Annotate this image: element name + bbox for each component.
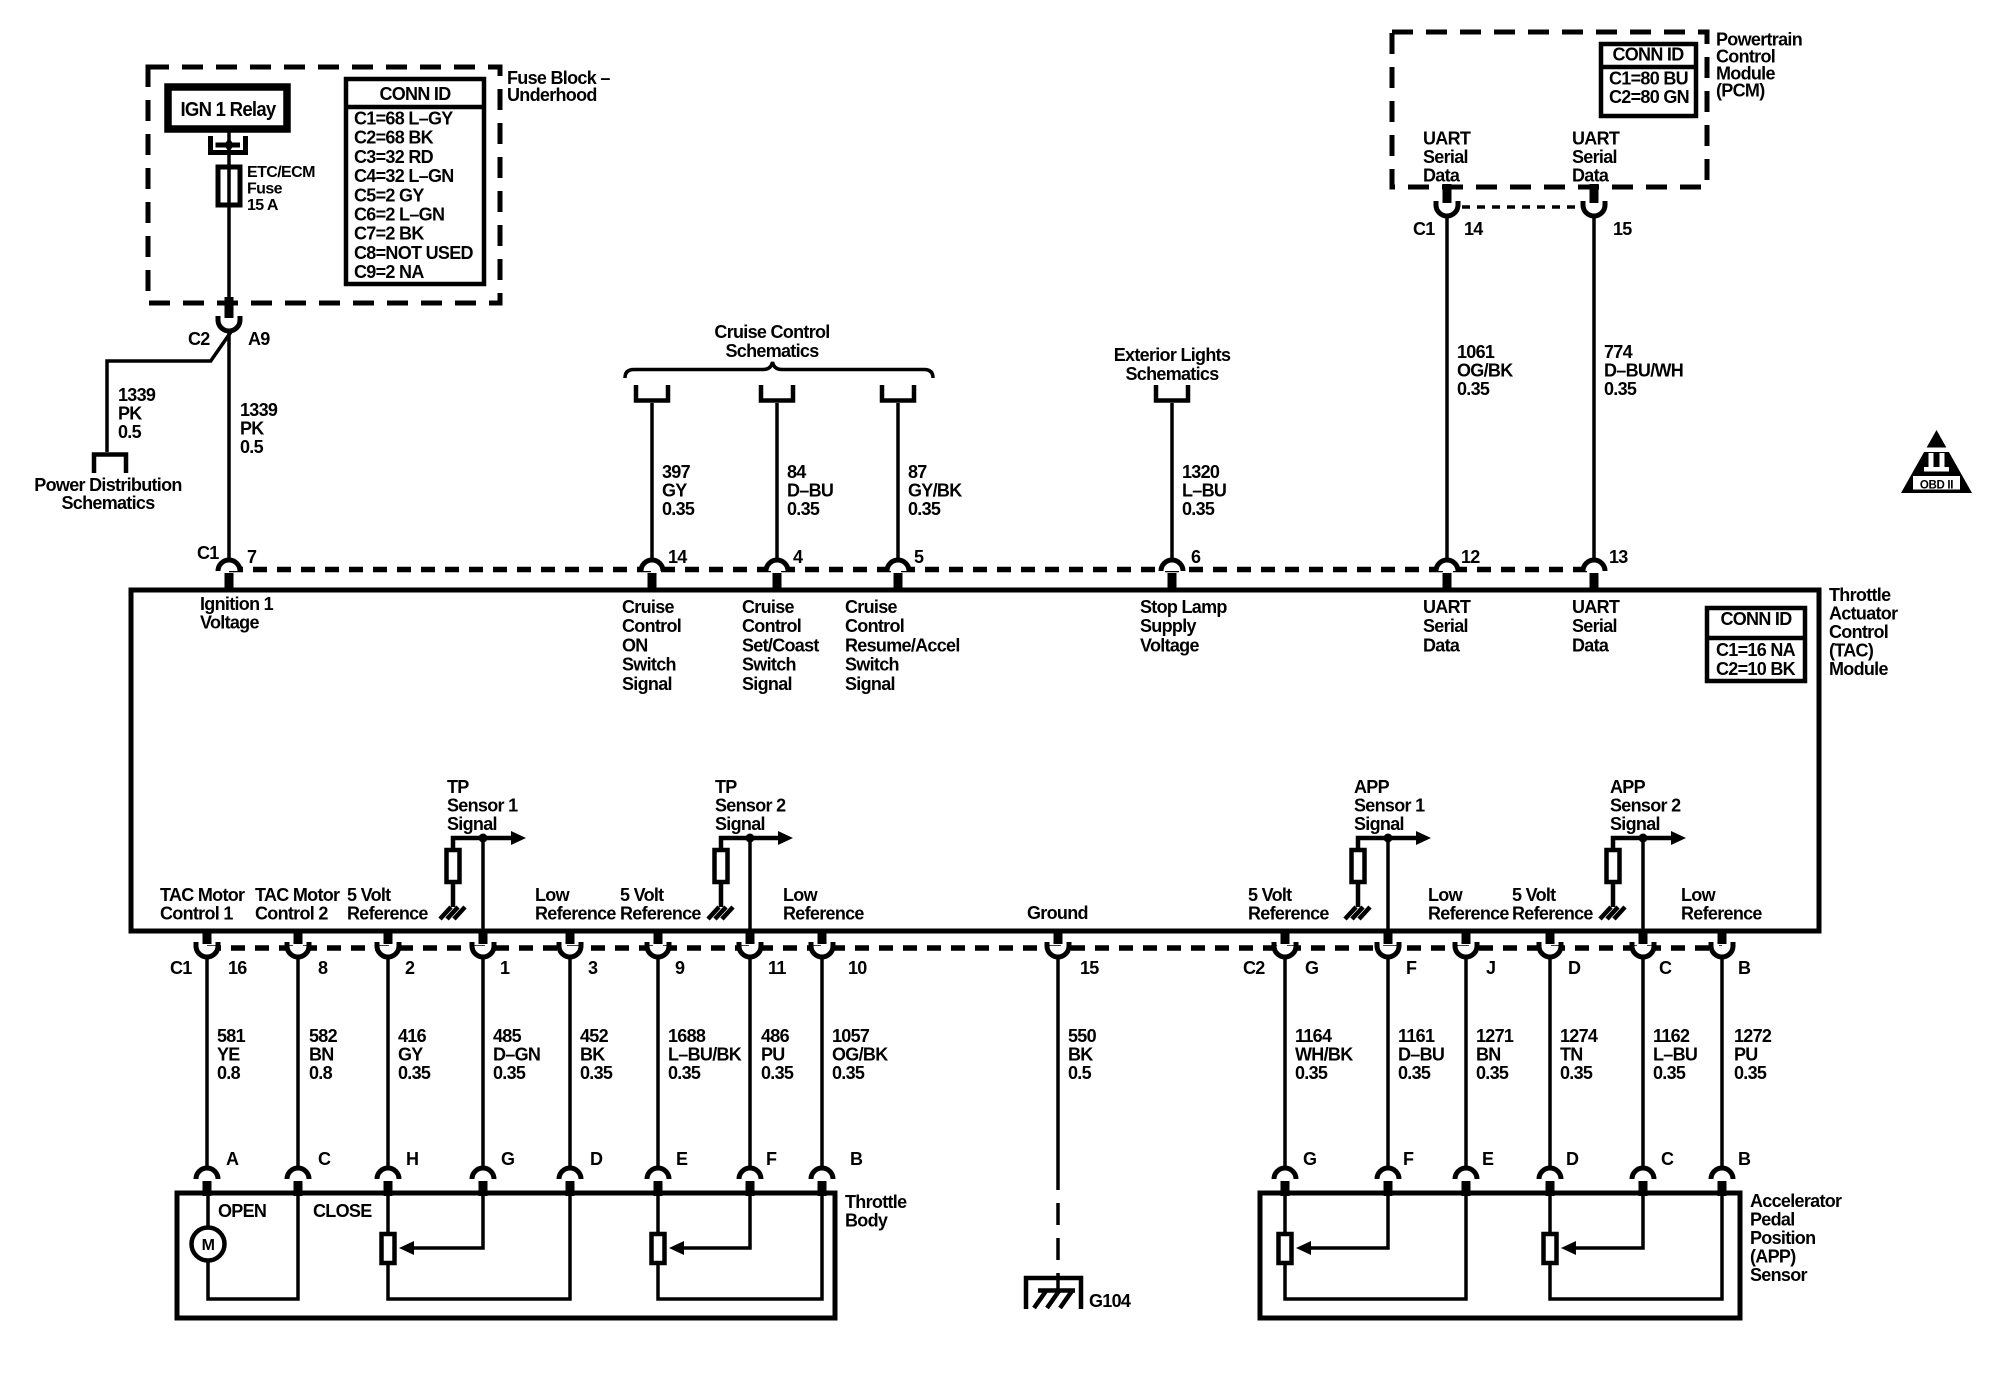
low reference label (pin B) [1681,885,1762,924]
svg-text:Signal: Signal [1354,814,1404,834]
svg-text:4: 4 [793,547,803,567]
wire 1339 PK branch to power distribution [107,361,211,452]
wire motor to pin C [208,1196,298,1299]
svg-text:1162: 1162 [1653,1026,1690,1046]
svg-text:C4=32 L–GN: C4=32 L–GN [354,166,454,186]
svg-text:B: B [1738,958,1751,978]
svg-text:0.35: 0.35 [832,1063,865,1083]
svg-text:0.5: 0.5 [1068,1063,1092,1083]
svg-text:Power Distribution: Power Distribution [34,475,181,495]
svg-text:OPEN: OPEN [218,1201,266,1221]
svg-text:Sensor: Sensor [1750,1265,1808,1285]
svg-text:416: 416 [398,1026,427,1046]
throttle body label [845,1192,907,1231]
svg-text:0.8: 0.8 [309,1063,333,1083]
svg-text:0.35: 0.35 [1182,499,1215,519]
svg-text:C1=16 NA: C1=16 NA [1716,640,1796,660]
wire label 84 [787,462,833,519]
svg-text:Reference: Reference [1248,904,1329,924]
svg-text:3: 3 [588,958,598,978]
wire 1162 L-BU 0.35 [1641,957,1645,1168]
svg-text:0.35: 0.35 [908,499,941,519]
svg-text:Low: Low [1681,885,1717,905]
svg-text:C1: C1 [1413,219,1435,239]
PCM connector dashed link [1447,205,1594,209]
svg-text:1339: 1339 [118,385,156,405]
svg-text:0.35: 0.35 [398,1063,431,1083]
svg-text:1271: 1271 [1476,1026,1514,1046]
svg-text:PK: PK [118,404,142,424]
svg-text:Reference: Reference [1428,904,1509,924]
cruise control set/coast switch signal label [742,597,819,694]
fuse value label [247,164,315,214]
svg-text:GY: GY [398,1045,423,1065]
wire 397 GY [650,403,654,560]
wire label 774 [1604,342,1683,399]
connector pin 15 (TAC bottom) [1047,930,1069,957]
svg-text:ON: ON [622,635,648,655]
svg-text:5 Volt: 5 Volt [620,885,664,905]
off-page connector (stop lamp wire) [1156,385,1188,401]
connector C2 pin A9 [218,297,240,331]
wire 550 BK dashed to ground [1056,1168,1060,1292]
svg-text:D–BU: D–BU [787,481,833,501]
svg-text:Supply: Supply [1140,616,1196,636]
connector pin 13 (TAC C1 top) [1583,560,1605,591]
svg-text:1164: 1164 [1295,1026,1332,1046]
svg-text:Data: Data [1572,166,1610,186]
svg-text:6: 6 [1191,547,1201,567]
TP pot 1 wiper arrow from pin G [399,1196,483,1255]
svg-text:M: M [202,1237,215,1254]
svg-text:Signal: Signal [742,674,792,694]
svg-text:A9: A9 [248,329,270,349]
connector pin D (TAC bottom) [1539,930,1561,957]
connector pin F (APP sensor) [1377,1168,1399,1196]
svg-text:C9=2 NA: C9=2 NA [354,262,424,282]
APP pot 2 wiper arrow from pin C [1561,1196,1643,1255]
svg-text:D: D [1568,958,1581,978]
svg-text:485: 485 [493,1026,522,1046]
accelerator pedal position sensor box [1260,1193,1740,1318]
wire label 397 [662,462,695,519]
svg-text:Sensor 2: Sensor 2 [715,796,786,816]
svg-text:0.35: 0.35 [580,1063,613,1083]
TP Sensor 1 Signal node: junction, arrow, resistor, ground [440,831,526,919]
svg-text:Stop Lamp: Stop Lamp [1140,597,1227,617]
svg-text:Serial: Serial [1572,147,1617,167]
connector pin G (throttle body) [472,1168,494,1196]
svg-text:0.35: 0.35 [1457,379,1490,399]
wire label 416 [398,1026,431,1083]
cruise control schematics label [714,322,829,361]
svg-text:Signal: Signal [1610,814,1660,834]
brace [625,362,933,378]
svg-text:Low: Low [535,885,571,905]
svg-text:UART: UART [1572,129,1620,149]
svg-text:0.35: 0.35 [1653,1063,1686,1083]
wire 1161 D-BU 0.35 [1386,957,1390,1168]
wire 774 D-BU/WH 0.35 [1592,216,1596,560]
connector pin E (throttle body) [647,1168,669,1196]
wire label 1057 [832,1026,888,1083]
powertrain control module dashed box [1392,32,1707,187]
off-page connector (cruise wire 84) [761,385,793,401]
svg-text:5 Volt: 5 Volt [1512,885,1556,905]
svg-text:ETC/ECM: ETC/ECM [247,164,315,181]
svg-text:WH/BK: WH/BK [1295,1045,1353,1065]
svg-text:Switch: Switch [845,655,899,675]
svg-text:F: F [1406,958,1417,978]
svg-text:OG/BK: OG/BK [832,1045,888,1065]
svg-text:Actuator: Actuator [1829,604,1898,624]
UART serial data label (PCM pin 15) [1572,129,1620,186]
svg-text:Control 1: Control 1 [160,904,233,924]
wire 87 GY/BK [896,403,900,560]
svg-text:5 Volt: 5 Volt [1248,885,1292,905]
wire label 1162 [1653,1026,1697,1083]
connector pin 16 (TAC bottom) [196,930,218,957]
svg-text:D: D [1566,1149,1579,1169]
connector pin C (throttle body) [287,1168,309,1196]
wire 84 D–BU [775,403,779,560]
svg-text:Data: Data [1423,635,1461,655]
svg-text:14: 14 [1464,219,1483,239]
IGN 1 Relay [168,87,287,129]
svg-text:C: C [318,1149,331,1169]
svg-text:D–BU: D–BU [1398,1045,1444,1065]
wire from relay to fuse [227,129,231,305]
svg-text:Throttle: Throttle [845,1192,907,1212]
connector pin 5 (TAC C1 top) [887,560,909,591]
svg-text:1057: 1057 [832,1026,870,1046]
wire label 582 [309,1026,338,1083]
connector pin 3 (TAC bottom) [559,930,581,957]
svg-text:Schematics: Schematics [1125,364,1219,384]
wire 1688 L-BU/BK 0.35 [656,957,660,1168]
svg-text:G: G [1305,958,1318,978]
wire label 1161 [1398,1026,1444,1083]
svg-text:C1: C1 [170,958,192,978]
connector pin 10 (TAC bottom) [811,930,833,957]
svg-text:C3=32 RD: C3=32 RD [354,147,434,167]
APP Sensor 2 Signal label [1610,777,1681,834]
svg-text:E: E [676,1149,688,1169]
svg-text:C2: C2 [1243,958,1265,978]
UART serial data label (TAC pin 13) [1572,597,1620,655]
TAC motor control 2 label [255,885,340,924]
connector pin 6 (TAC C1 top) [1161,560,1183,591]
svg-text:87: 87 [908,462,927,482]
throttle body box [177,1193,835,1318]
svg-text:Data: Data [1423,166,1461,186]
svg-text:397: 397 [662,462,691,482]
wire inside TAC from TP Sensor 2 Signal junction to pin [748,838,752,931]
svg-text:Fuse: Fuse [247,181,283,198]
off-page connector (cruise wire 87) [882,385,914,401]
svg-text:0.35: 0.35 [493,1063,526,1083]
connector pin E (APP sensor) [1455,1168,1477,1196]
svg-text:Sensor 1: Sensor 1 [1354,796,1425,816]
svg-text:(APP): (APP) [1750,1247,1796,1267]
svg-text:D: D [590,1149,603,1169]
svg-text:0.35: 0.35 [1604,379,1637,399]
wire label 1320 [1182,462,1226,519]
connector pin 8 (TAC bottom) [287,930,309,957]
svg-text:Ground: Ground [1027,903,1088,923]
wire 1339 PK 0.5 (vertical to TAC) [227,331,231,560]
wire 550 BK 0.5 (solid) [1056,957,1060,1168]
svg-text:(TAC): (TAC) [1829,641,1874,661]
svg-text:Voltage: Voltage [1140,635,1199,655]
connector pin 12 (TAC C1 top) [1436,560,1458,591]
connector pin F (TAC bottom) [1377,930,1399,957]
wire label 1339 PK 0.5 (branch) [118,385,156,442]
svg-text:15: 15 [1080,958,1099,978]
connector pin 2 (TAC bottom) [377,930,399,957]
svg-text:Schematics: Schematics [61,493,155,513]
low reference label (pin J) [1428,885,1509,924]
throttle actuator control module box [131,590,1819,931]
svg-text:Signal: Signal [845,674,895,694]
svg-text:Serial: Serial [1423,147,1468,167]
svg-text:UART: UART [1423,129,1471,149]
cruise control resume/accel switch signal label [845,597,960,694]
svg-text:Signal: Signal [622,674,672,694]
svg-text:Reference: Reference [620,904,701,924]
wire label 1271 [1476,1026,1514,1083]
svg-text:Switch: Switch [742,655,796,675]
svg-text:C6=2 L–GN: C6=2 L–GN [354,205,444,225]
wire label 1061 [1457,342,1513,399]
connector pin J (TAC bottom) [1455,930,1477,957]
TP Sensor 1 Signal label [447,777,518,834]
connector pin 4 (TAC C1 top) [766,560,788,591]
svg-text:CONN ID: CONN ID [379,84,451,104]
wire label 486 [761,1026,794,1083]
CONN ID table (TAC) [1707,608,1805,681]
wire inside TAC from TP Sensor 1 Signal junction to pin [481,838,485,931]
svg-text:G: G [501,1149,514,1169]
svg-text:Signal: Signal [715,814,765,834]
svg-text:TAC Motor: TAC Motor [255,885,340,905]
svg-text:L–BU: L–BU [1653,1045,1697,1065]
svg-text:Module: Module [1829,659,1888,679]
TAC bottom connector dashed line [207,945,1722,951]
wire label 1339 PK 0.5 (main) [240,400,278,457]
svg-text:14: 14 [668,547,687,567]
low reference label (pin 10) [783,885,864,924]
svg-text:Serial: Serial [1572,616,1617,636]
svg-text:Signal: Signal [447,814,497,834]
throttle position sensor 2 (pot) [652,1196,823,1299]
wire 486 PU 0.35 [748,957,752,1168]
fuse ETC/ECM 15 A [218,167,240,205]
svg-text:GY/BK: GY/BK [908,481,962,501]
svg-text:PK: PK [240,419,264,439]
OBD II symbol [1901,430,1972,493]
svg-text:0.35: 0.35 [662,499,695,519]
svg-text:Resume/Accel: Resume/Accel [845,635,960,655]
svg-text:BN: BN [1476,1045,1501,1065]
wire 416 GY 0.35 [386,957,390,1168]
CONN ID table (PCM) [1601,44,1696,116]
svg-text:Position: Position [1750,1228,1815,1248]
svg-text:Sensor 1: Sensor 1 [447,796,518,816]
wire 1272 PU 0.35 [1720,957,1724,1168]
svg-text:1688: 1688 [668,1026,706,1046]
svg-text:Exterior Lights: Exterior Lights [1114,345,1231,365]
ignition 1 voltage label [200,594,274,633]
svg-text:L–BU/BK: L–BU/BK [668,1045,742,1065]
wire label 1688 [668,1026,742,1083]
wire inside TAC from APP Sensor 1 Signal junction to pin [1386,838,1390,931]
off-page connector to power distribution [94,455,126,474]
TAC module label [1829,585,1898,679]
svg-text:Switch: Switch [622,655,676,675]
svg-text:Reference: Reference [535,904,616,924]
connector pin C (APP sensor) [1632,1168,1654,1196]
throttle motor M [192,1196,225,1261]
svg-text:7: 7 [247,547,257,567]
connector pin B (throttle body) [811,1168,833,1196]
svg-text:5: 5 [914,547,924,567]
svg-text:IGN 1 Relay: IGN 1 Relay [181,99,278,121]
svg-text:8: 8 [318,958,328,978]
wire label 452 [580,1026,613,1083]
svg-text:Control: Control [1829,622,1888,642]
svg-text:Control 2: Control 2 [255,904,328,924]
TP pot 2 wiper arrow from pin F [669,1196,750,1255]
svg-text:BK: BK [1068,1045,1093,1065]
svg-text:Control: Control [742,616,801,636]
svg-text:Cruise: Cruise [622,597,675,617]
svg-text:Data: Data [1572,635,1610,655]
fuse block label [507,68,610,105]
connector C1 pin 14 (PCM) [1436,184,1458,216]
wire 485 D-GN 0.35 [481,957,485,1168]
TP Sensor 2 Signal node: junction, arrow, resistor, ground [708,831,793,919]
svg-text:OBD II: OBD II [1920,480,1953,492]
svg-text:BN: BN [309,1045,334,1065]
connector pin D (throttle body) [559,1168,581,1196]
APP pot 1 wiper arrow from pin F [1296,1196,1388,1255]
svg-text:486: 486 [761,1026,790,1046]
svg-text:Pedal: Pedal [1750,1210,1795,1230]
5 volt reference label (pin 2) [347,885,428,924]
wire inside TAC from APP Sensor 2 Signal junction to pin [1641,838,1645,931]
svg-text:Control: Control [845,616,904,636]
APP Sensor 1 Signal node: junction, arrow, resistor, ground [1345,831,1431,919]
connector pin 1 (TAC bottom) [472,930,494,957]
svg-text:1320: 1320 [1182,462,1220,482]
off-page connector (cruise wire 397) [636,385,668,401]
svg-text:0.35: 0.35 [1476,1063,1509,1083]
svg-text:YE: YE [217,1045,240,1065]
svg-text:1061: 1061 [1457,342,1495,362]
svg-text:0.35: 0.35 [1398,1063,1431,1083]
svg-text:550: 550 [1068,1026,1097,1046]
svg-text:15 A: 15 A [247,197,279,214]
svg-text:PU: PU [1734,1045,1758,1065]
svg-text:11: 11 [768,958,786,978]
svg-text:OG/BK: OG/BK [1457,361,1513,381]
TAC module connector C1 dashed line [229,567,1594,573]
svg-text:Body: Body [845,1211,888,1231]
svg-text:2: 2 [405,958,415,978]
svg-text:Cruise Control: Cruise Control [714,322,829,342]
5 volt reference label (pin 9) [620,885,701,924]
svg-text:0.35: 0.35 [668,1063,701,1083]
wire 1271 BN 0.35 [1464,957,1468,1168]
svg-text:9: 9 [675,958,685,978]
svg-text:C2=10 BK: C2=10 BK [1716,659,1796,679]
svg-text:Ignition 1: Ignition 1 [200,594,274,614]
svg-text:Reference: Reference [347,904,428,924]
connector pin C (TAC bottom) [1632,930,1654,957]
svg-text:Reference: Reference [783,904,864,924]
svg-text:E: E [1482,1149,1494,1169]
svg-text:TAC Motor: TAC Motor [160,885,245,905]
APP sensor label [1750,1191,1842,1285]
svg-text:Sensor 2: Sensor 2 [1610,796,1681,816]
svg-text:UART: UART [1423,597,1471,617]
connector pin F (throttle body) [739,1168,761,1196]
svg-text:CLOSE: CLOSE [313,1201,372,1221]
svg-text:0.35: 0.35 [1295,1063,1328,1083]
APP Sensor 1 Signal label [1354,777,1425,834]
svg-text:10: 10 [848,958,867,978]
splice slash [210,329,233,362]
wire label 1272 [1734,1026,1772,1083]
svg-text:1339: 1339 [240,400,278,420]
svg-text:J: J [1486,958,1495,978]
svg-text:16: 16 [228,958,247,978]
APP pot 2 [1544,1196,1723,1299]
svg-text:Reference: Reference [1681,904,1762,924]
5 volt reference label (pin G) [1248,885,1329,924]
fuse block underhood dashed box [148,67,500,303]
svg-text:84: 84 [787,462,806,482]
connector pin 15 (PCM) [1583,184,1605,216]
svg-text:0.35: 0.35 [761,1063,794,1083]
svg-text:H: H [406,1149,418,1169]
svg-text:D–GN: D–GN [493,1045,540,1065]
svg-text:B: B [1738,1149,1751,1169]
connector pin 9 (TAC bottom) [647,930,669,957]
wire 1164 WH/BK 0.35 [1283,957,1287,1168]
svg-text:TP: TP [447,777,469,797]
wire 581 YE 0.8 [205,957,209,1168]
svg-text:0.5: 0.5 [118,422,142,442]
svg-text:12: 12 [1461,547,1480,567]
svg-text:(PCM): (PCM) [1716,81,1765,101]
TAC motor control 1 label [160,885,245,924]
svg-text:1274: 1274 [1560,1026,1598,1046]
APP Sensor 2 Signal node: junction, arrow, resistor, ground [1600,831,1686,919]
svg-text:15: 15 [1613,219,1632,239]
connector pin G (APP sensor) [1274,1168,1296,1196]
wire 1057 OG/BK 0.35 [820,957,824,1168]
svg-text:0.35: 0.35 [1734,1063,1767,1083]
svg-text:L–BU: L–BU [1182,481,1226,501]
UART serial data label (PCM pin 14) [1423,129,1471,186]
svg-text:GY: GY [662,481,687,501]
svg-text:13: 13 [1609,547,1628,567]
stop lamp supply voltage label [1140,597,1227,655]
svg-text:C2=68 BK: C2=68 BK [354,128,434,148]
svg-text:Low: Low [783,885,819,905]
